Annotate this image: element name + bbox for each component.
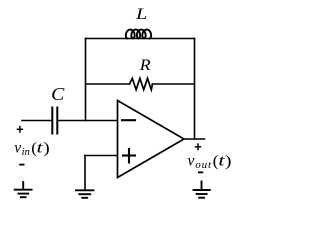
svg-text:out: out [195, 159, 212, 171]
capacitor C [52, 108, 57, 134]
svg-text:v: v [14, 140, 21, 157]
wire R row left segment [86, 83, 130, 85]
resistor R [130, 78, 153, 89]
ground (left, v_in reference) [15, 182, 32, 197]
label - (v_in terminal) [19, 164, 24, 166]
ground (middle, non-inverting input) [76, 190, 94, 198]
svg-text:R: R [139, 57, 151, 74]
label + (v_in terminal) [17, 126, 23, 133]
svg-text:v: v [188, 153, 195, 170]
inductor L [126, 30, 151, 39]
svg-text:L: L [135, 6, 148, 23]
svg-text:in: in [22, 147, 30, 158]
label v_out(t) [188, 153, 232, 172]
wire op-amp output [184, 138, 205, 140]
wire non-inverting input horizontal [85, 155, 118, 157]
wire left feedback vertical [85, 39, 87, 121]
wire capacitor to op-amp inverting input [57, 120, 117, 122]
op-amp plus marking [123, 149, 135, 163]
op-amp U1 [118, 101, 185, 178]
op-amp minus marking [122, 119, 135, 121]
label + (v_out terminal) [195, 143, 201, 150]
wire top feedback (continuous under inductor) [86, 38, 195, 40]
label v_in(t) [14, 140, 50, 159]
svg-text:C: C [51, 84, 65, 104]
svg-text:): ) [225, 153, 232, 170]
svg-text:): ) [43, 140, 49, 157]
label - (v_out terminal) [198, 171, 203, 173]
wire right feedback vertical [194, 39, 196, 140]
svg-text:t: t [37, 140, 44, 157]
wire non-inverting down to ground [84, 156, 86, 190]
ground (right, v_out reference) [194, 182, 210, 198]
wire input left segment (v_in to capacitor) [22, 120, 52, 122]
wire R row right segment [153, 83, 195, 85]
